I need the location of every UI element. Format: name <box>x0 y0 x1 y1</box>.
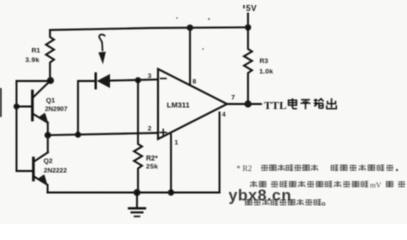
node A junction dot (R1 bottom / Q1 emitter / left wire) <box>47 77 54 84</box>
node: R2 top junction dot on pin3 wire <box>135 77 141 83</box>
node: left bus / Q1 base junction dot <box>14 104 20 110</box>
node: 5V / R3 junction dot <box>245 24 251 30</box>
node: photodiode branch junction dot on pin2 wire <box>75 132 81 138</box>
resistor R2* 25k (vertical run, zigzag, bottom lead) <box>134 80 142 192</box>
footnote line 3: 电流降低一个数量级。 <box>245 199 325 206</box>
transistor Q2 emitter lead with arrow <box>34 177 48 193</box>
node: R2/ground junction dot <box>134 189 141 196</box>
node: pin8/rail junction dot <box>187 25 193 31</box>
tick before 5V <box>243 5 245 8</box>
wire: left vertical bus <box>16 81 18 171</box>
hanzi 输 <box>314 99 324 109</box>
wire: photodiode cathode drop wire <box>78 81 95 135</box>
light arrow onto photodiode <box>99 34 104 50</box>
transistor Q1 2N2907 base bar <box>31 91 34 120</box>
wire: pin 1 lead to ground <box>170 135 172 193</box>
minus sign at pin 3 input <box>161 78 167 80</box>
scan speck <box>176 17 178 19</box>
wire: Q2 base lead <box>17 170 33 172</box>
op-amp U1 LM311 triangle <box>158 69 227 139</box>
ground symbol <box>136 193 138 209</box>
hanzi 平 <box>301 100 311 110</box>
footnote line 1: * R2设置比较电平 当进行比较时, <box>237 164 399 173</box>
node: output junction dot <box>244 100 251 107</box>
hanzi 电 <box>289 98 298 109</box>
wire: 5V stub above rail <box>247 14 249 28</box>
wire: Q1 base lead <box>17 106 32 108</box>
scan speck <box>202 48 204 50</box>
wire: comparator output pin 7 to TTL output <box>227 103 261 105</box>
paper scan noise <box>0 0 1 1</box>
scan speck <box>208 18 210 20</box>
wire: node B to comparator pin 2 (+) input <box>48 133 158 135</box>
photodiode D1 triangle <box>97 74 110 88</box>
wire: Q1 collector to node B to Q2 collector vertical <box>47 123 49 153</box>
left edge scan streak <box>0 88 2 117</box>
wire: pin 4 lead to ground <box>219 113 221 193</box>
transistor Q2 2N2222 base bar <box>32 158 35 180</box>
footnote line 2: 光电二极管上的压降小于(mV), 漏 <box>250 181 405 190</box>
wire: node A to left vertical bus <box>17 80 51 82</box>
transistor Q1 emitter lead (to node A) <box>33 81 50 98</box>
resistor R3 1.0k (top lead, zigzag, bottom lead) <box>244 27 252 104</box>
transistor Q2 collector lead <box>34 152 48 161</box>
wire: +5V top supply rail <box>50 27 248 30</box>
label TTL电平输出 (output label) <box>264 98 336 112</box>
hanzi 出 <box>327 98 337 109</box>
wire: photodiode anode to comparator pin 3 (-) input <box>110 80 158 81</box>
transistor Q1 collector lead with arrow <box>33 114 48 123</box>
resistor R1 3.9k (top lead, zigzag, bottom lead) <box>46 30 54 80</box>
wire: ground rail <box>48 192 220 194</box>
wire: pin 8 supply lead <box>189 28 191 85</box>
plus sign at pin 2 input <box>160 129 166 135</box>
node: pin1/ground junction dot <box>168 189 174 195</box>
photodiode D1 cathode bar <box>94 74 96 89</box>
node B junction dot <box>45 132 52 139</box>
